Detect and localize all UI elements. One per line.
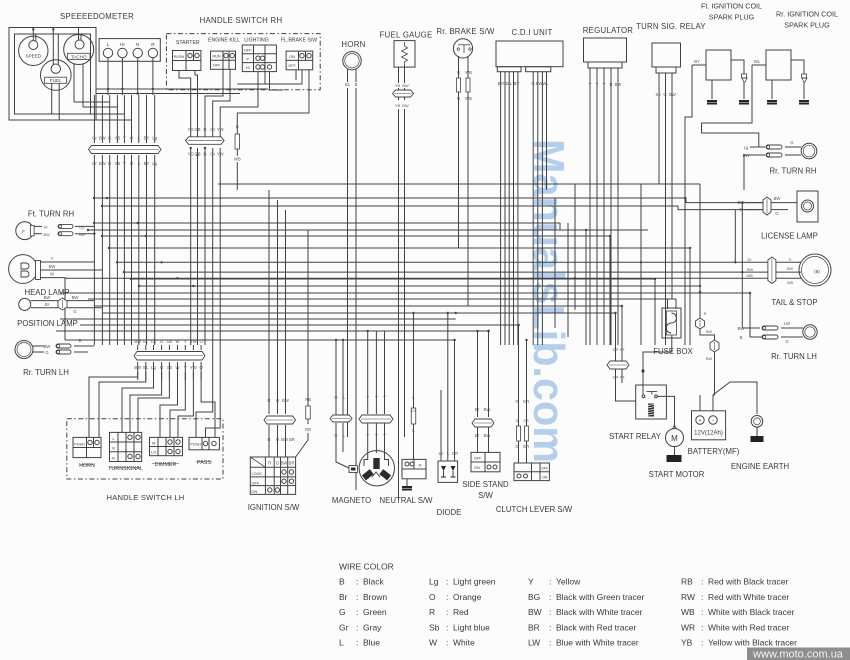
svg-text:Y: Y: [123, 136, 126, 141]
svg-text:Y: Y: [589, 82, 592, 87]
svg-text:Sb: Sb: [655, 92, 661, 97]
svg-text:R: R: [429, 607, 435, 617]
svg-text:BW: BW: [774, 196, 781, 201]
svg-text::: :: [446, 623, 448, 633]
svg-text:LW: LW: [528, 638, 540, 648]
svg-text:DIODE: DIODE: [437, 508, 462, 517]
svg-text:RW: RW: [681, 592, 695, 602]
svg-text:YB: YB: [115, 136, 121, 141]
svg-text:P: P: [247, 57, 250, 61]
svg-text:Brown: Brown: [363, 592, 387, 602]
svg-text:BW: BW: [669, 92, 676, 97]
svg-text:GB: GB: [503, 81, 509, 86]
svg-text::: :: [701, 638, 703, 648]
svg-text:G: G: [663, 92, 666, 97]
svg-text:G: G: [739, 207, 742, 212]
svg-text:YB: YB: [681, 638, 693, 648]
svg-text:BW: BW: [787, 267, 794, 271]
svg-text:HI: HI: [120, 42, 125, 47]
svg-text:WB: WB: [234, 157, 241, 162]
svg-text:B: B: [355, 82, 358, 87]
svg-text:BW: BW: [402, 103, 409, 108]
svg-text::: :: [701, 607, 703, 617]
svg-text:FUEL: FUEL: [50, 78, 62, 83]
svg-text:TURNSIGNAL: TURNSIGNAL: [108, 466, 143, 472]
svg-text:FL.BRAKE S/W: FL.BRAKE S/W: [281, 38, 317, 44]
svg-text:YB: YB: [395, 103, 401, 108]
svg-text:WL: WL: [542, 81, 549, 86]
svg-text:GR: GR: [523, 419, 529, 423]
svg-text:Y: Y: [528, 577, 534, 587]
svg-text:LIGHTING: LIGHTING: [244, 38, 269, 44]
svg-text:O: O: [429, 592, 436, 602]
svg-text:SIDE STAND: SIDE STAND: [462, 480, 509, 489]
svg-text::: :: [701, 592, 703, 602]
svg-text:+: +: [699, 419, 702, 425]
svg-text:TAIL & STOP: TAIL & STOP: [771, 298, 817, 307]
svg-text:WL: WL: [754, 59, 761, 64]
svg-text:G: G: [160, 339, 163, 344]
svg-text:Rr. TURN LH: Rr. TURN LH: [771, 352, 817, 361]
svg-text:Y: Y: [596, 82, 599, 87]
svg-text:G: G: [45, 350, 48, 355]
svg-text:Rr. TURN LH: Rr. TURN LH: [23, 368, 69, 377]
svg-text:www.moto.com.ua: www.moto.com.ua: [752, 649, 844, 660]
svg-text:Light green: Light green: [453, 577, 496, 587]
svg-text:Orange: Orange: [453, 592, 482, 602]
svg-text:CLUTCH LEVER S/W: CLUTCH LEVER S/W: [496, 505, 573, 514]
svg-text:Br: Br: [475, 433, 480, 438]
svg-text:BW: BW: [281, 437, 288, 442]
svg-text:ON: ON: [289, 55, 295, 59]
svg-text:BW: BW: [99, 136, 106, 141]
svg-text:WB: WB: [747, 274, 754, 278]
svg-text:Lg: Lg: [744, 145, 749, 150]
svg-text::: :: [446, 638, 448, 648]
svg-text:YW: YW: [190, 339, 197, 344]
svg-text:Sb: Sb: [429, 623, 440, 633]
svg-text:START MOTOR: START MOTOR: [649, 470, 705, 479]
svg-text:R: R: [267, 437, 270, 442]
svg-text:12V(12Ah): 12V(12Ah): [694, 431, 723, 437]
svg-text:SPARK PLUG: SPARK PLUG: [709, 13, 755, 22]
svg-text::: :: [549, 577, 551, 587]
svg-text:WB: WB: [787, 281, 794, 285]
svg-text:BY: BY: [694, 59, 700, 64]
svg-text:BW: BW: [615, 82, 622, 87]
svg-text:STARTER: STARTER: [176, 40, 200, 46]
svg-text:Ft. TURN RH: Ft. TURN RH: [28, 210, 74, 219]
svg-text:BW: BW: [44, 233, 51, 237]
svg-text:W: W: [429, 638, 437, 648]
svg-text:Y: Y: [603, 82, 606, 87]
svg-text:White with Red tracer: White with Red tracer: [708, 623, 789, 633]
svg-text:B: B: [236, 124, 239, 129]
svg-text:HI: HI: [152, 442, 156, 446]
svg-text:Light blue: Light blue: [453, 623, 490, 633]
svg-text::: :: [356, 607, 358, 617]
svg-text:Rr. BRAKE S/W: Rr. BRAKE S/W: [436, 27, 494, 36]
svg-text::: :: [549, 592, 551, 602]
svg-text:BL: BL: [143, 339, 149, 344]
svg-text:Y: Y: [383, 433, 386, 438]
svg-text:LW: LW: [784, 321, 790, 326]
svg-text:BR: BR: [289, 437, 295, 442]
svg-text:Ft. IGNITION COIL: Ft. IGNITION COIL: [701, 2, 762, 11]
svg-text:YW: YW: [217, 127, 224, 132]
svg-text:BW: BW: [44, 344, 51, 349]
svg-text:BW: BW: [134, 339, 141, 344]
svg-text:G: G: [516, 419, 519, 423]
svg-text:ManualsLib.com: ManualsLib.com: [524, 139, 573, 463]
svg-text:BW: BW: [72, 295, 79, 300]
svg-text:Gr: Gr: [92, 136, 97, 141]
svg-text:S/W: S/W: [478, 491, 493, 500]
svg-text::: :: [356, 638, 358, 648]
svg-text:WB: WB: [465, 96, 472, 101]
svg-text:BW: BW: [281, 461, 288, 466]
svg-text:G: G: [531, 81, 534, 86]
svg-text:Y: Y: [366, 433, 369, 438]
svg-text:Black: Black: [363, 577, 385, 587]
svg-text::: :: [549, 607, 551, 617]
svg-text:START RELAY: START RELAY: [609, 432, 662, 441]
svg-text:TACHO: TACHO: [71, 54, 87, 59]
svg-text:Green: Green: [363, 607, 387, 617]
svg-text:Black with Red tracer: Black with Red tracer: [556, 623, 636, 633]
svg-text:Red: Red: [453, 607, 469, 617]
svg-text:BW: BW: [484, 433, 491, 438]
svg-text:PUSH: PUSH: [74, 443, 85, 447]
svg-text:REGULATOR: REGULATOR: [583, 26, 634, 35]
svg-text:OFF: OFF: [252, 481, 260, 485]
svg-text:G: G: [73, 309, 76, 314]
svg-text::: :: [446, 592, 448, 602]
svg-text:B: B: [79, 338, 82, 343]
svg-text:Y: Y: [366, 395, 369, 400]
svg-text:N: N: [136, 42, 139, 47]
svg-text:Rr. TURN RH: Rr. TURN RH: [769, 167, 816, 176]
svg-text:B: B: [740, 335, 743, 340]
svg-text:POSITION LAMP: POSITION LAMP: [17, 319, 78, 328]
svg-text:R: R: [268, 461, 271, 466]
svg-text::: :: [549, 623, 551, 633]
svg-text:B: B: [108, 136, 111, 141]
svg-text:BR: BR: [528, 623, 540, 633]
svg-text:Y: Y: [184, 339, 187, 344]
svg-text:DIMMER: DIMMER: [155, 462, 177, 468]
svg-text:D: D: [203, 127, 206, 132]
svg-text:PASS: PASS: [197, 460, 211, 466]
svg-text:FUEL GAUGE: FUEL GAUGE: [380, 31, 433, 40]
svg-text:SPEEEEDOMETER: SPEEEEDOMETER: [60, 12, 134, 21]
svg-text:R: R: [267, 398, 270, 403]
svg-text:Blue with White tracer: Blue with White tracer: [556, 638, 639, 648]
svg-text:RB: RB: [681, 577, 693, 587]
svg-text:BW: BW: [44, 295, 51, 300]
svg-text:Gray: Gray: [363, 623, 382, 633]
svg-text:White with Black tracer: White with Black tracer: [708, 607, 795, 617]
svg-text:IGNITION S/W: IGNITION S/W: [248, 503, 300, 512]
svg-text:BW: BW: [484, 407, 491, 412]
svg-text:-: -: [712, 418, 714, 424]
svg-text::: :: [549, 638, 551, 648]
svg-text:WIRE COLOR: WIRE COLOR: [339, 562, 394, 572]
svg-text:R: R: [609, 82, 612, 87]
svg-text:BW: BW: [706, 330, 713, 334]
svg-text:BW: BW: [738, 326, 745, 331]
svg-text::: :: [356, 623, 358, 633]
svg-text:W: W: [50, 272, 54, 277]
svg-text:HI: HI: [44, 225, 48, 229]
svg-text:LO: LO: [151, 451, 156, 455]
svg-text:SPEED: SPEED: [26, 54, 42, 59]
svg-text:Yellow with Black tracer: Yellow with Black tracer: [708, 638, 797, 648]
svg-text:Br: Br: [339, 592, 348, 602]
svg-text:B: B: [339, 577, 345, 587]
svg-text:W: W: [176, 339, 180, 344]
svg-text:Y: Y: [51, 256, 54, 261]
svg-text:PUSH: PUSH: [174, 55, 185, 59]
svg-text:Rr. IGNITION COIL: Rr. IGNITION COIL: [776, 10, 838, 19]
svg-text:L: L: [112, 437, 114, 441]
svg-text:OFF: OFF: [244, 49, 252, 53]
svg-text:WB: WB: [681, 607, 695, 617]
svg-text:ON: ON: [252, 490, 258, 494]
svg-text:BY: BY: [514, 81, 520, 86]
svg-text:N: N: [112, 447, 115, 451]
svg-text:Gr: Gr: [747, 258, 752, 262]
svg-text:Y: Y: [375, 395, 378, 400]
svg-text:Black with Green tracer: Black with Green tracer: [556, 592, 645, 602]
svg-text:G: G: [790, 140, 793, 145]
svg-text:G: G: [789, 257, 792, 261]
svg-text:Br: Br: [45, 302, 50, 307]
svg-text:ENGINE KILL: ENGINE KILL: [208, 38, 240, 44]
svg-text::: :: [701, 577, 703, 587]
svg-text:HANDLE SWITCH RH: HANDLE SWITCH RH: [200, 16, 283, 25]
svg-text:Lg: Lg: [152, 136, 157, 141]
svg-text:LG: LG: [411, 409, 416, 413]
svg-text:BW: BW: [49, 264, 56, 269]
svg-text:OFF: OFF: [541, 467, 548, 471]
svg-text:GR YR: GR YR: [613, 376, 625, 380]
svg-text:TURN SIG. RELAY: TURN SIG. RELAY: [636, 22, 706, 31]
svg-text:Red with Black tracer: Red with Black tracer: [708, 577, 788, 587]
svg-text:Lg: Lg: [429, 577, 439, 587]
svg-text:G: G: [339, 607, 346, 617]
svg-text:YB: YB: [395, 83, 401, 88]
svg-text:L: L: [107, 42, 110, 47]
svg-text:SPARK PLUG: SPARK PLUG: [784, 21, 830, 30]
svg-text:Sb: Sb: [167, 339, 173, 344]
svg-text:GB: GB: [194, 127, 200, 132]
svg-text:Lg: Lg: [151, 339, 156, 344]
svg-text::: :: [356, 577, 358, 587]
svg-text:WR: WR: [681, 623, 695, 633]
svg-text:L: L: [339, 638, 344, 648]
svg-text:White: White: [453, 638, 475, 648]
svg-text:Red with White tracer: Red with White tracer: [708, 592, 789, 602]
svg-text:N: N: [419, 463, 422, 468]
svg-text:Yellow: Yellow: [556, 577, 581, 587]
svg-text:Gr: Gr: [339, 623, 349, 633]
svg-text:RB: RB: [305, 427, 311, 432]
svg-text:F: F: [22, 229, 25, 234]
svg-text:(8): (8): [814, 269, 820, 274]
svg-text:OFF: OFF: [474, 457, 482, 461]
svg-text:ON: ON: [474, 466, 480, 470]
svg-text:Blue: Blue: [363, 638, 380, 648]
svg-text:BL: BL: [345, 82, 351, 87]
svg-text:OFF: OFF: [288, 64, 296, 68]
svg-text:BW: BW: [402, 83, 409, 88]
svg-text:YG: YG: [188, 127, 194, 132]
svg-text:ENGINE EARTH: ENGINE EARTH: [731, 462, 789, 471]
svg-text:PUSH: PUSH: [190, 443, 201, 447]
svg-text:GR: GR: [523, 444, 529, 449]
svg-text:R: R: [112, 456, 115, 460]
svg-text:WB: WB: [465, 70, 472, 75]
svg-text:MAGNETO: MAGNETO: [332, 496, 371, 505]
svg-text:M: M: [671, 434, 678, 443]
svg-text::: :: [356, 592, 358, 602]
svg-text:Gr: Gr: [210, 127, 215, 132]
svg-text:G: G: [775, 211, 778, 216]
svg-text:R: R: [704, 312, 707, 316]
svg-text:Y: Y: [375, 433, 378, 438]
svg-text:BW: BW: [528, 607, 542, 617]
svg-text:BY: BY: [144, 136, 150, 141]
svg-text:G: G: [785, 339, 788, 344]
svg-text::: :: [446, 607, 448, 617]
svg-text:LOCK: LOCK: [252, 472, 263, 476]
svg-text:BG: BG: [528, 592, 540, 602]
svg-text:BATTERY(MF): BATTERY(MF): [688, 447, 740, 456]
svg-text:HI: HI: [246, 66, 250, 70]
svg-text:C.D.I UNIT: C.D.I UNIT: [511, 28, 552, 37]
svg-text:OFF: OFF: [213, 64, 221, 68]
svg-text:ON: ON: [542, 475, 548, 479]
svg-text:LICENSE LAMP: LICENSE LAMP: [761, 232, 818, 241]
svg-text:BW: BW: [282, 398, 289, 403]
svg-text:HANDLE SWITCH LH: HANDLE SWITCH LH: [107, 493, 185, 502]
svg-text:HORN: HORN: [79, 463, 95, 469]
svg-text:BW: BW: [738, 200, 745, 205]
svg-text:BW: BW: [743, 153, 750, 158]
svg-text:Y: Y: [383, 395, 386, 400]
svg-text:Black with White tracer: Black with White tracer: [556, 607, 643, 617]
svg-text:BW: BW: [706, 357, 713, 361]
svg-text:RUN: RUN: [212, 55, 220, 59]
svg-text:HORN: HORN: [341, 40, 365, 49]
svg-text:BW: BW: [747, 268, 754, 272]
svg-text:BR: BR: [289, 461, 295, 466]
svg-text:G: G: [334, 433, 337, 438]
svg-text::: :: [701, 623, 703, 633]
svg-text:GR YR: GR YR: [613, 348, 625, 352]
svg-text:NEUTRAL S/W: NEUTRAL S/W: [380, 496, 434, 505]
svg-text:G: G: [515, 444, 518, 449]
svg-text::: :: [446, 577, 448, 587]
